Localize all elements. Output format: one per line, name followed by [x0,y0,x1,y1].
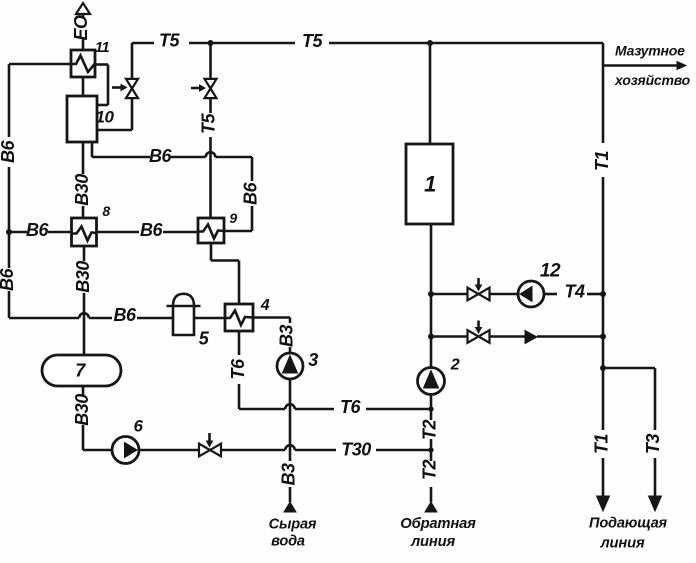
svg-text:12: 12 [540,261,561,282]
svg-text:В6: В6 [113,305,136,325]
svg-text:В6: В6 [149,146,172,166]
svg-text:Т6: Т6 [228,358,248,379]
svg-text:хозяйство: хозяйство [614,72,691,88]
svg-text:5: 5 [199,329,210,349]
svg-text:2: 2 [450,357,460,374]
svg-text:Т30: Т30 [341,440,371,460]
svg-text:В6: В6 [0,268,17,291]
svg-text:Т3: Т3 [643,434,663,454]
svg-text:Т5: Т5 [302,31,323,51]
svg-text:линия: линия [410,534,455,550]
svg-text:В30: В30 [72,174,92,206]
svg-text:В6: В6 [26,220,49,240]
svg-text:В6: В6 [241,182,261,205]
svg-text:линия: линия [600,536,645,552]
svg-text:3: 3 [308,350,318,370]
svg-text:Т2: Т2 [420,460,440,480]
svg-text:В6: В6 [0,140,18,163]
svg-text:В30: В30 [73,261,93,293]
svg-text:8: 8 [102,203,110,219]
svg-text:В6: В6 [140,220,163,240]
svg-text:В3: В3 [279,463,299,485]
svg-text:вода: вода [271,534,305,550]
svg-text:Т4: Т4 [564,282,584,302]
svg-text:Т6: Т6 [340,397,361,417]
svg-text:11: 11 [95,39,110,56]
svg-text:1: 1 [424,172,436,197]
svg-text:В30: В30 [72,394,92,426]
svg-text:4: 4 [260,297,270,314]
svg-text:Т1: Т1 [592,151,612,171]
svg-text:9: 9 [229,210,237,226]
svg-text:Т1: Т1 [592,434,612,454]
svg-text:В3: В3 [277,325,297,347]
svg-text:Сырая: Сырая [269,517,317,533]
svg-text:6: 6 [134,417,144,436]
svg-text:7: 7 [75,361,86,381]
svg-text:Подающая: Подающая [589,516,668,532]
svg-text:Т5: Т5 [159,31,180,51]
svg-text:Обратная: Обратная [400,516,476,532]
svg-text:Т5: Т5 [199,113,219,134]
svg-text:Т2: Т2 [420,420,440,440]
svg-text:ЕО: ЕО [71,15,91,41]
svg-text:Мазутное: Мазутное [615,43,685,59]
svg-text:10: 10 [96,108,115,127]
